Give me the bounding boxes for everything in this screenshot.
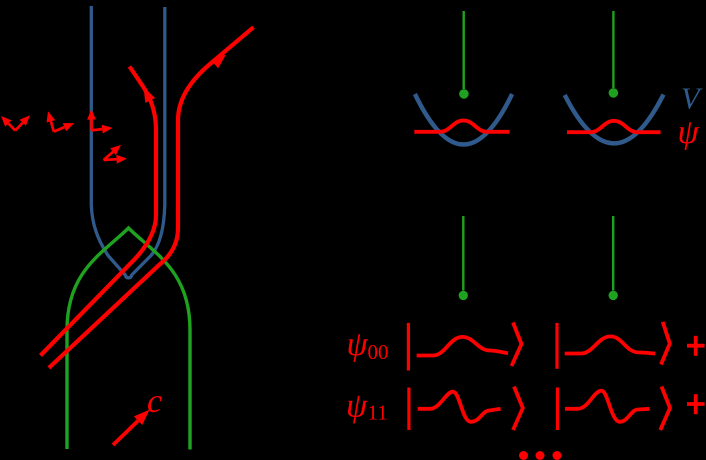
tweezer string right lower (green): [612, 216, 614, 291]
ellipsis dot 1: [519, 451, 528, 460]
tweezer string left lower (green): [462, 216, 464, 291]
atom dot right lower: [609, 291, 618, 300]
scattered photon arrow pair 3 up: [87, 109, 96, 130]
ket row2 left: angle bracket: [513, 387, 523, 431]
ket row2 left: wavefunction 1: [418, 392, 501, 422]
scattered photon arrow pair 2 up: [47, 111, 56, 131]
plus sign row 1: [687, 336, 705, 356]
ket row1 left: wavefunction 0: [417, 337, 508, 356]
svg-text:ψ: ψ: [346, 388, 368, 425]
arrowhead on inner beam: [144, 87, 156, 103]
ket row1 left: bar: [407, 323, 410, 371]
atom dot right upper: [609, 88, 619, 98]
ket row2 left: bar: [407, 388, 410, 431]
plus sign row 2: [687, 394, 705, 414]
wavefunction psi left (red): [414, 120, 509, 131]
arrowhead on outer beam: [211, 55, 226, 69]
ket row2 right: bar: [556, 388, 559, 431]
green dome (lens/substrate outline): [67, 228, 190, 450]
tweezer string left upper (green): [463, 11, 465, 89]
svg-text:11: 11: [368, 401, 388, 425]
ket row1 right: bar: [555, 323, 558, 369]
scattered photon arrow pair 3 right: [92, 125, 113, 134]
red beam outer line: [49, 27, 254, 368]
ellipsis dot 3: [553, 451, 562, 460]
scattered photon arrow pair 1 right: [15, 115, 30, 130]
svg-text:ψ: ψ: [347, 326, 369, 363]
scattered photon arrow pair 2 right: [54, 123, 74, 132]
wavefunction psi right (red): [567, 121, 661, 132]
scattered photon arrow pair 1 left: [1, 116, 15, 131]
scattered photon arrow pair 4 right: [104, 155, 128, 164]
scattered photon arrow pair 4 up-right: [104, 145, 122, 160]
trap potential V left (blue parabola): [415, 94, 512, 145]
blue tube (tapered tip waveguide): [91, 6, 165, 278]
svg-text:00: 00: [368, 340, 389, 364]
ket row2 right: angle bracket: [660, 387, 670, 431]
svg-text:ψ: ψ: [678, 114, 700, 151]
red beam inner line: [41, 67, 157, 356]
ket row2 right: wavefunction 1: [565, 391, 650, 422]
ket row1 left: angle bracket: [512, 323, 522, 367]
atom dot left upper: [459, 89, 469, 99]
tweezer string right upper (green): [612, 11, 614, 88]
trap potential V right (blue parabola): [565, 95, 664, 144]
ket row1 right: angle bracket: [661, 322, 670, 365]
atom dot left lower: [459, 291, 468, 300]
arrow to label c: [113, 410, 150, 445]
ket row1 right: wavefunction 0: [565, 336, 656, 353]
svg-text:c: c: [147, 383, 162, 420]
ellipsis dot 2: [536, 451, 545, 460]
